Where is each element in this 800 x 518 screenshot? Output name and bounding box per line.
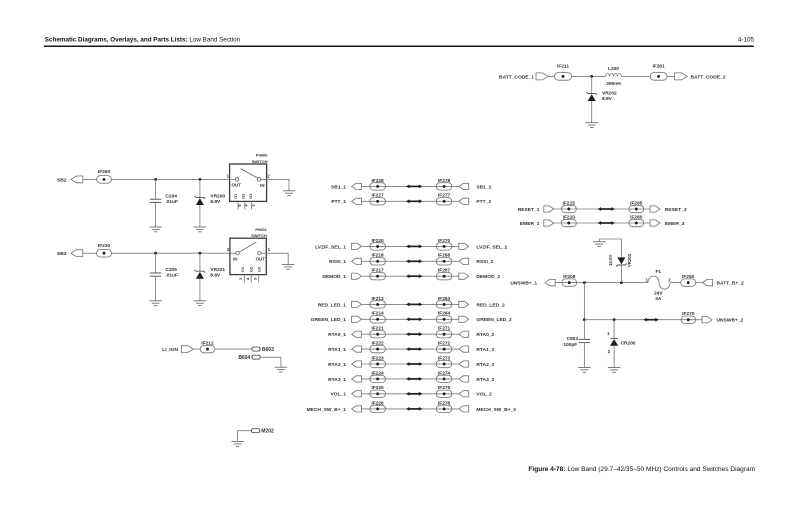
svg-text:L200: L200 xyxy=(608,66,619,72)
cable link xyxy=(600,222,612,224)
wire xyxy=(199,205,201,227)
svg-text:IF268: IF268 xyxy=(438,253,451,259)
feedthrough IF227 xyxy=(370,198,386,205)
cable link xyxy=(409,333,420,335)
svg-text:C205: C205 xyxy=(165,267,177,273)
zener VR202 xyxy=(586,92,597,95)
svg-text:RTA3_2: RTA3_2 xyxy=(476,377,494,383)
wire xyxy=(260,357,281,367)
svg-text:G1: G1 xyxy=(234,194,238,199)
svg-text:UNSWB+_2: UNSWB+_2 xyxy=(717,318,744,324)
wire xyxy=(362,318,459,320)
svg-text:M202: M202 xyxy=(261,429,274,435)
svg-text:BATT_B+_2: BATT_B+_2 xyxy=(717,281,745,287)
svg-text:4-105: 4-105 xyxy=(738,36,755,43)
wire xyxy=(362,378,459,380)
junction xyxy=(583,318,586,321)
wire xyxy=(362,348,459,350)
svg-text:RTA0_1: RTA0_1 xyxy=(328,332,346,338)
feedthrough IF265 xyxy=(629,205,644,212)
svg-text:EMER_3: EMER_3 xyxy=(665,221,685,227)
wire xyxy=(670,282,681,284)
node DEMOD_2 xyxy=(459,273,469,279)
svg-text:IF217: IF217 xyxy=(371,268,384,274)
wire xyxy=(583,343,585,368)
ground xyxy=(149,300,161,302)
feedthrough IF250 xyxy=(681,279,696,286)
svg-text:IF222: IF222 xyxy=(371,341,384,347)
svg-text:GREEN_LED_1: GREEN_LED_1 xyxy=(311,317,347,323)
wire xyxy=(112,252,230,254)
svg-text:G3: G3 xyxy=(258,267,262,272)
svg-text:.01uF: .01uF xyxy=(165,199,178,205)
feedthrough IF270 xyxy=(681,316,696,323)
capacitor C204 xyxy=(150,198,161,200)
svg-text:LVZIF_SEL_1: LVZIF_SEL_1 xyxy=(315,244,346,250)
wire xyxy=(667,75,674,77)
cable link xyxy=(600,208,612,210)
ground xyxy=(586,122,598,124)
svg-text:IF275: IF275 xyxy=(438,385,451,391)
svg-text:G3: G3 xyxy=(249,194,253,199)
svg-text:SWITCH: SWITCH xyxy=(252,159,268,164)
svg-text:8.8V: 8.8V xyxy=(210,273,221,279)
feedthrough IF276 xyxy=(436,405,452,412)
svg-text:RESET_3: RESET_3 xyxy=(665,207,687,213)
svg-text:IF215: IF215 xyxy=(563,200,576,206)
feedthrough IF212 xyxy=(200,345,215,352)
svg-text:390nH: 390nH xyxy=(606,81,621,87)
feedthrough IF215 xyxy=(561,205,576,212)
junction xyxy=(583,281,586,284)
wire xyxy=(362,185,459,187)
svg-text:RTA2_2: RTA2_2 xyxy=(476,362,494,368)
svg-text:IF273: IF273 xyxy=(438,355,451,361)
svg-text:OUT: OUT xyxy=(256,256,266,261)
wire xyxy=(555,282,648,284)
svg-text:3: 3 xyxy=(250,204,255,207)
feedthrough IF220 xyxy=(370,243,386,250)
feedthrough IF210 xyxy=(561,219,576,226)
node RESET_3 xyxy=(650,206,660,212)
svg-text:Figure 4-78: Low Band (29.7–42: Figure 4-78: Low Band (29.7–42/35–50 MHz… xyxy=(528,466,755,473)
svg-text:RTA1_1: RTA1_1 xyxy=(328,347,346,353)
svg-text:1: 1 xyxy=(607,331,610,336)
wire xyxy=(155,202,157,226)
svg-text:IF261: IF261 xyxy=(652,64,665,70)
svg-text:Schematic Diagrams, Overlays,: Schematic Diagrams, Overlays, and Parts … xyxy=(45,36,241,43)
svg-text:IF272: IF272 xyxy=(438,341,451,347)
svg-text:BATT_CODE_2: BATT_CODE_2 xyxy=(691,74,726,80)
feedthrough IF274 xyxy=(436,375,452,382)
wire xyxy=(554,222,650,224)
node EMER_3 xyxy=(650,220,660,226)
wire xyxy=(362,408,459,410)
node BATT_B+_2 xyxy=(703,279,713,285)
cable link xyxy=(409,260,420,262)
cable link xyxy=(409,245,420,247)
svg-text:EMER_1: EMER_1 xyxy=(520,221,540,227)
svg-text:IF208: IF208 xyxy=(563,274,576,280)
wire xyxy=(584,319,702,321)
svg-text:IF260: IF260 xyxy=(98,169,111,175)
svg-text:SWITCH: SWITCH xyxy=(251,233,267,238)
svg-text:IF213: IF213 xyxy=(371,296,384,302)
svg-text:IF270: IF270 xyxy=(438,238,451,244)
feedthrough IF260 xyxy=(97,176,112,184)
svg-text:G1: G1 xyxy=(241,267,245,272)
svg-text:IF220: IF220 xyxy=(371,238,384,244)
svg-text:IF211: IF211 xyxy=(557,64,569,70)
svg-text:LI_ION: LI_ION xyxy=(162,347,178,353)
node BATT_CODE_2 xyxy=(675,73,688,80)
feedthrough IF270 xyxy=(436,243,452,250)
wire xyxy=(591,76,593,93)
pin 4 stub xyxy=(250,275,252,283)
svg-text:IF226: IF226 xyxy=(371,400,384,406)
wire xyxy=(591,101,593,123)
svg-text:IF264: IF264 xyxy=(438,311,451,317)
wire xyxy=(620,265,622,283)
svg-text:IF270: IF270 xyxy=(682,311,695,317)
svg-text:IF225: IF225 xyxy=(371,385,384,391)
svg-text:2: 2 xyxy=(267,173,270,178)
node RED_LED_2 xyxy=(459,301,469,307)
feedthrough IF260 xyxy=(629,219,644,226)
ground xyxy=(231,441,243,443)
svg-text:UNSWB+_1: UNSWB+_1 xyxy=(510,281,537,287)
wire xyxy=(554,208,650,210)
feedthrough IF218 xyxy=(370,258,386,265)
svg-text:IF218: IF218 xyxy=(371,253,384,259)
svg-text:3A: 3A xyxy=(655,296,662,302)
svg-text:BATT_CODE_1: BATT_CODE_1 xyxy=(499,74,534,80)
svg-text:4: 4 xyxy=(245,277,250,280)
svg-text:5: 5 xyxy=(237,204,242,207)
svg-text:IF228: IF228 xyxy=(371,178,384,184)
svg-text:IF267: IF267 xyxy=(438,268,451,274)
wire xyxy=(362,333,459,335)
cable link xyxy=(409,393,420,395)
cable link xyxy=(409,348,420,350)
svg-text:8.8V: 8.8V xyxy=(602,96,613,102)
node MECH_SW_B+_2 xyxy=(459,406,469,412)
svg-text:IF271: IF271 xyxy=(438,326,451,332)
inductor L200 xyxy=(606,74,622,77)
feedthrough IF217 xyxy=(370,273,386,280)
terminal B603 xyxy=(252,347,260,351)
wire xyxy=(599,239,621,257)
feedthrough IF224 xyxy=(370,375,386,382)
ground xyxy=(593,241,605,243)
junction xyxy=(154,178,157,181)
wire xyxy=(83,252,97,254)
pin 3 stub xyxy=(251,201,253,209)
node VOL_2 xyxy=(459,391,469,397)
svg-text:CR200: CR200 xyxy=(621,340,636,346)
feedthrough IF213 xyxy=(370,301,386,308)
wire xyxy=(362,393,459,395)
svg-text:P0600: P0600 xyxy=(256,153,268,158)
svg-text:G2: G2 xyxy=(250,267,254,272)
svg-text:SB2: SB2 xyxy=(57,177,67,183)
cable link xyxy=(409,363,420,365)
feedthrough IF275 xyxy=(436,390,452,397)
pin 5 stub xyxy=(258,275,260,283)
zener VR200 xyxy=(195,196,206,199)
svg-text:GREEN_LED_2: GREEN_LED_2 xyxy=(476,317,512,323)
svg-text:VR203: VR203 xyxy=(627,253,632,267)
ground xyxy=(578,367,590,369)
wire xyxy=(362,245,459,247)
svg-text:RTA3_1: RTA3_1 xyxy=(328,377,346,383)
junction xyxy=(613,318,616,321)
svg-text:IF278: IF278 xyxy=(438,178,451,184)
node GREEN_LED_2 xyxy=(459,316,469,322)
capacitor C205 xyxy=(150,272,161,274)
svg-text:10.0V: 10.0V xyxy=(608,254,613,265)
junction xyxy=(199,252,202,255)
svg-text:SB1_1: SB1_1 xyxy=(331,184,346,190)
ground xyxy=(608,367,620,369)
svg-text:IF224: IF224 xyxy=(371,370,384,376)
wire xyxy=(155,253,157,273)
feedthrough IF271 xyxy=(436,331,452,338)
svg-text:DEMOD_2: DEMOD_2 xyxy=(476,274,500,280)
svg-text:MECH_SW_B+_2: MECH_SW_B+_2 xyxy=(476,407,516,413)
pin 3 stub xyxy=(243,275,245,283)
wire xyxy=(572,75,606,77)
wire xyxy=(362,200,459,202)
svg-text:1: 1 xyxy=(268,247,271,252)
capacitor C503 xyxy=(579,338,590,340)
svg-text:IF210: IF210 xyxy=(563,214,576,220)
feedthrough IF225 xyxy=(370,390,386,397)
ground xyxy=(282,264,294,266)
svg-text:RESET_1: RESET_1 xyxy=(518,207,540,213)
svg-text:VR201: VR201 xyxy=(210,267,225,273)
svg-text:F1: F1 xyxy=(655,269,661,275)
zener VR201 xyxy=(195,270,206,273)
wire xyxy=(583,320,585,340)
svg-text:C204: C204 xyxy=(165,193,177,199)
svg-text:100pF: 100pF xyxy=(563,342,577,348)
wire xyxy=(696,282,703,284)
svg-text:IF274: IF274 xyxy=(438,370,451,376)
svg-text:4: 4 xyxy=(244,204,249,207)
ground xyxy=(275,366,287,368)
node RTA2_2 xyxy=(459,361,469,367)
svg-text:IF260: IF260 xyxy=(630,214,643,220)
junction xyxy=(154,252,157,255)
feedthrough IF226 xyxy=(370,405,386,412)
pin 4 stub xyxy=(244,201,246,209)
svg-text:VOL_2: VOL_2 xyxy=(476,392,492,398)
wire xyxy=(362,260,459,262)
feedthrough IF222 xyxy=(370,345,386,352)
feedthrough IF278 xyxy=(436,183,452,190)
wire xyxy=(199,279,201,301)
wire xyxy=(266,253,288,264)
wire xyxy=(613,346,615,368)
ground xyxy=(283,190,295,192)
svg-text:B604: B604 xyxy=(238,355,250,361)
wire xyxy=(155,276,157,300)
feedthrough IF261 xyxy=(650,73,667,81)
wire xyxy=(199,253,201,271)
wire xyxy=(83,178,97,180)
wire xyxy=(215,348,252,350)
feedthrough IF263 xyxy=(436,301,452,308)
node RTA3_2 xyxy=(459,376,469,382)
svg-text:IF230: IF230 xyxy=(98,243,111,249)
cable link xyxy=(409,303,420,305)
svg-text:IF212: IF212 xyxy=(201,341,214,347)
svg-text:.01uF: .01uF xyxy=(165,273,178,279)
zener VR203 xyxy=(616,264,627,267)
svg-text:IF277: IF277 xyxy=(438,193,451,199)
ground xyxy=(149,226,161,228)
svg-text:SB3: SB3 xyxy=(57,251,67,257)
svg-text:RTA1_2: RTA1_2 xyxy=(476,347,494,353)
svg-text:IN: IN xyxy=(260,183,264,188)
svg-text:LVZIF_SEL_2: LVZIF_SEL_2 xyxy=(476,244,507,250)
cable link xyxy=(409,378,420,380)
ground xyxy=(194,300,206,302)
feedthrough IF272 xyxy=(436,345,452,352)
junction xyxy=(590,75,593,78)
wire xyxy=(613,320,615,339)
svg-text:DEMOD_1: DEMOD_1 xyxy=(322,274,346,280)
svg-text:RED_LED_2: RED_LED_2 xyxy=(476,302,505,308)
svg-text:2: 2 xyxy=(608,349,611,354)
svg-text:OUT: OUT xyxy=(232,182,242,187)
cable link xyxy=(409,185,420,187)
svg-text:8.8V: 8.8V xyxy=(210,199,221,205)
svg-text:RED_LED_1: RED_LED_1 xyxy=(318,302,347,308)
svg-text:IF276: IF276 xyxy=(438,400,451,406)
feedthrough IF214 xyxy=(370,316,386,323)
wire xyxy=(155,179,157,199)
svg-text:IF214: IF214 xyxy=(371,311,384,317)
node RSSI_2 xyxy=(459,258,469,264)
fuse F1 xyxy=(648,276,670,289)
ground xyxy=(194,226,206,228)
diode CR200 xyxy=(610,337,617,339)
wire xyxy=(362,303,459,305)
node LVZIF_SEL_2 xyxy=(459,243,469,249)
svg-text:IN: IN xyxy=(233,256,237,261)
wire xyxy=(238,431,252,442)
feedthrough IF273 xyxy=(436,360,452,367)
feedthrough IF211 xyxy=(555,73,572,81)
feedthrough IF223 xyxy=(370,360,386,367)
feedthrough IF268 xyxy=(436,258,452,265)
feedthrough IF230 xyxy=(97,249,112,257)
wire xyxy=(621,75,650,77)
svg-text:5: 5 xyxy=(252,277,257,280)
cable link xyxy=(409,408,420,410)
svg-text:IF221: IF221 xyxy=(371,326,384,332)
wire xyxy=(199,179,201,197)
svg-text:IF263: IF263 xyxy=(438,296,451,302)
svg-text:VR200: VR200 xyxy=(210,193,225,199)
feedthrough IF267 xyxy=(436,273,452,280)
svg-text:IF223: IF223 xyxy=(371,355,384,361)
svg-text:3: 3 xyxy=(238,277,243,280)
wire xyxy=(112,178,230,180)
wire xyxy=(267,179,289,190)
svg-text:SB1_2: SB1_2 xyxy=(476,184,491,190)
cable link xyxy=(646,319,656,321)
feedthrough IF208 xyxy=(562,279,577,286)
svg-text:IF250: IF250 xyxy=(682,274,695,280)
junction xyxy=(620,281,623,284)
cable link xyxy=(409,318,420,320)
wire xyxy=(362,363,459,365)
cable link xyxy=(409,275,420,277)
svg-text:IF227: IF227 xyxy=(371,193,384,199)
svg-text:RSSI_1: RSSI_1 xyxy=(329,259,346,265)
svg-text:P0601: P0601 xyxy=(255,227,267,232)
wire xyxy=(583,283,585,320)
svg-text:24V: 24V xyxy=(654,291,663,297)
feedthrough IF277 xyxy=(436,198,452,205)
cable link xyxy=(409,200,420,202)
svg-text:PTT_2: PTT_2 xyxy=(476,199,491,205)
junction xyxy=(199,178,202,181)
svg-text:MECH_SW_B+_1: MECH_SW_B+_1 xyxy=(306,407,346,413)
svg-text:VOL_1: VOL_1 xyxy=(331,392,347,398)
wire xyxy=(548,75,554,77)
svg-text:2: 2 xyxy=(668,277,671,282)
feedthrough IF228 xyxy=(370,183,386,190)
node SB1_2 xyxy=(459,183,469,189)
svg-text:IF265: IF265 xyxy=(630,200,643,206)
wire xyxy=(193,348,200,350)
node RTA0_2 xyxy=(459,331,469,337)
svg-text:B603: B603 xyxy=(262,347,274,353)
terminal M202 xyxy=(252,429,260,433)
svg-text:RTA2_1: RTA2_1 xyxy=(328,362,346,368)
svg-text:VR202: VR202 xyxy=(602,91,617,97)
header rule xyxy=(44,45,754,47)
feedthrough IF221 xyxy=(370,331,386,338)
svg-text:RTA0_2: RTA0_2 xyxy=(476,332,494,338)
svg-text:G2: G2 xyxy=(241,194,245,199)
node PTT_2 xyxy=(459,198,469,204)
pin 5 stub xyxy=(237,201,239,209)
svg-text:PTT_1: PTT_1 xyxy=(331,199,346,205)
node RTA1_2 xyxy=(459,346,469,352)
node UNSWB+_2 xyxy=(702,317,712,323)
feedthrough IF264 xyxy=(436,316,452,323)
svg-text:C503: C503 xyxy=(567,336,579,342)
wire xyxy=(362,275,459,277)
svg-text:RSSI_2: RSSI_2 xyxy=(476,259,493,265)
